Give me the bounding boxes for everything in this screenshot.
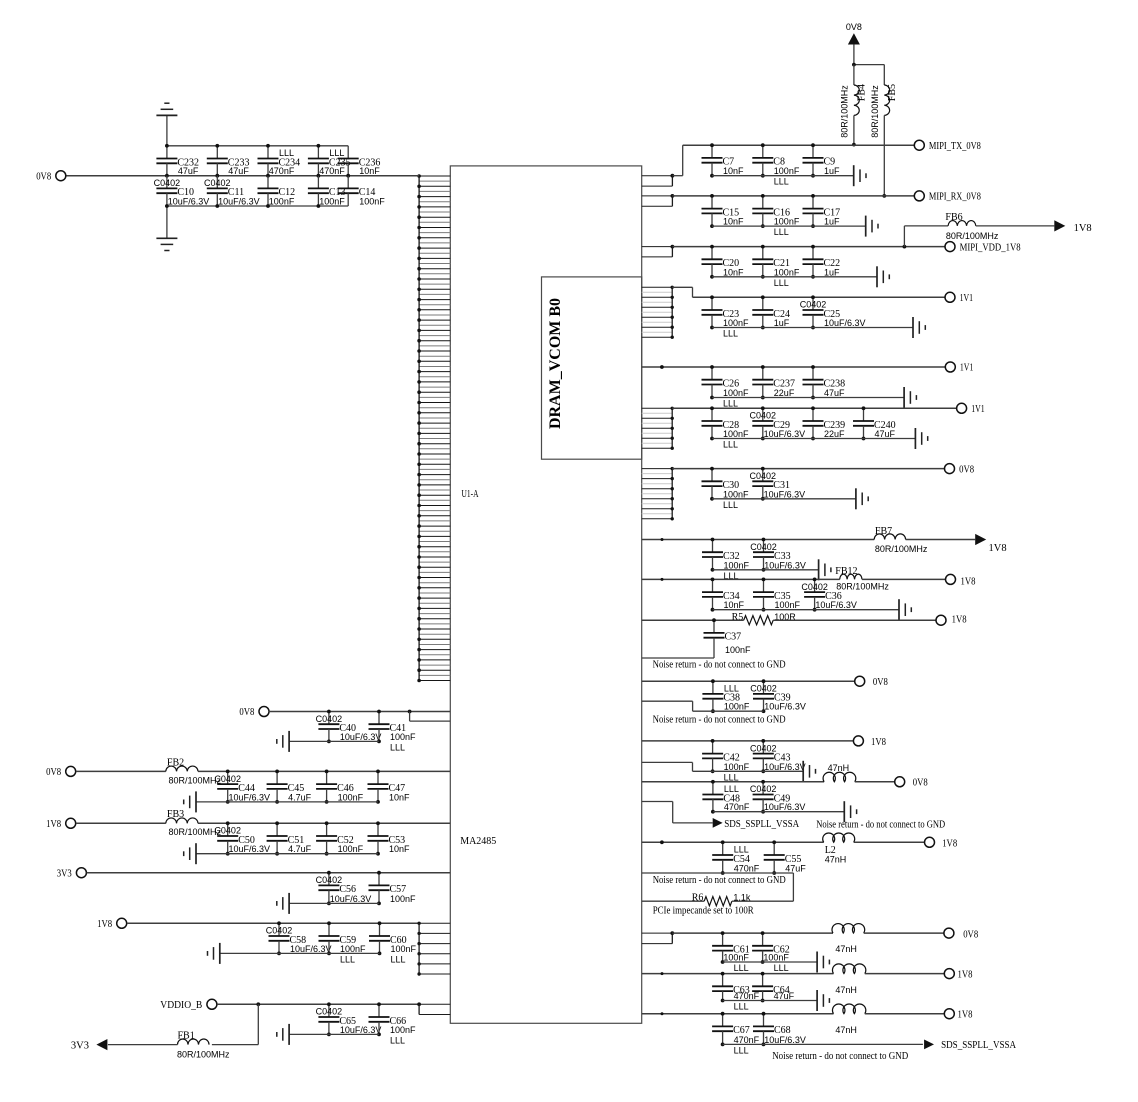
svg-text:MA2485: MA2485 <box>460 836 496 847</box>
svg-text:10uF/6.3V: 10uF/6.3V <box>764 489 806 499</box>
note <box>653 875 786 886</box>
wire <box>906 539 976 541</box>
port MIPI_VDD_1V8 <box>945 242 1021 254</box>
wire noise return <box>642 701 764 711</box>
svg-text:100nF: 100nF <box>763 953 789 963</box>
port 1V8 <box>46 818 76 830</box>
ground <box>208 943 220 964</box>
port 3V3 <box>57 868 87 880</box>
svg-text:SDS_SSPLL_VSSA: SDS_SSPLL_VSSA <box>941 1040 1016 1051</box>
ferrite bead FB1 <box>177 1031 230 1060</box>
svg-text:FB3: FB3 <box>167 809 184 820</box>
svg-text:47nH: 47nH <box>835 944 857 954</box>
svg-text:C0402: C0402 <box>750 542 777 552</box>
svg-text:LLL: LLL <box>734 1045 749 1055</box>
svg-text:MIPI_RX_0V8: MIPI_RX_0V8 <box>929 192 981 203</box>
svg-text:LLL: LLL <box>391 954 406 964</box>
wire 1V8 <box>642 840 824 844</box>
svg-text:10uF/6.3V: 10uF/6.3V <box>764 1035 806 1045</box>
wire cap return rail <box>712 438 915 440</box>
svg-text:LLL: LLL <box>340 954 355 964</box>
capacitor C238 <box>803 365 846 399</box>
svg-text:SDS_SSPLL_VSSA: SDS_SSPLL_VSSA <box>724 819 799 830</box>
svg-text:FB1: FB1 <box>178 1031 195 1042</box>
capacitor C12 <box>258 176 296 208</box>
ferrite bead FB5 <box>870 65 898 198</box>
wire 0V8 <box>672 468 944 470</box>
svg-text:Noise return - do not connect: Noise return - do not connect to GND <box>653 660 786 671</box>
svg-text:0V8: 0V8 <box>46 767 61 778</box>
svg-text:3V3: 3V3 <box>71 1040 89 1051</box>
wire 1V8 <box>127 922 419 924</box>
wire MIPI_RX_0V8 <box>672 195 914 197</box>
wire 3V3 <box>87 872 451 874</box>
junction <box>165 144 169 208</box>
svg-text:C0402: C0402 <box>750 743 777 753</box>
wire to FB1 <box>212 1004 258 1044</box>
svg-text:22uF: 22uF <box>774 388 795 398</box>
capacitor C54 <box>712 840 760 875</box>
svg-text:10nF: 10nF <box>389 792 410 802</box>
wire 1V8 <box>76 822 166 824</box>
svg-text:100nF: 100nF <box>723 953 749 963</box>
wire <box>198 822 450 824</box>
svg-text:0V8: 0V8 <box>913 778 928 789</box>
capacitor C63 <box>712 972 760 1012</box>
svg-text:0V8: 0V8 <box>846 22 862 32</box>
capacitor C64 <box>752 972 795 1003</box>
svg-text:80R/100MHz: 80R/100MHz <box>946 231 999 241</box>
svg-text:0V8: 0V8 <box>239 707 254 718</box>
U1-A right pins <box>642 194 675 206</box>
ferrite bead FB12 <box>835 566 889 591</box>
port 1V8 <box>97 918 127 930</box>
ground <box>854 165 866 186</box>
svg-text:470nF: 470nF <box>319 166 345 176</box>
svg-text:1V8: 1V8 <box>958 1010 973 1021</box>
wire cap return rail <box>723 1000 818 1002</box>
capacitor C59 <box>319 921 367 964</box>
svg-text:4.7uF: 4.7uF <box>288 844 312 854</box>
svg-text:47uF: 47uF <box>178 166 199 176</box>
U1-A right pins <box>642 245 675 257</box>
svg-text:47uF: 47uF <box>228 166 249 176</box>
ground <box>819 559 831 580</box>
svg-text:47uF: 47uF <box>824 388 845 398</box>
wire MIPI_VDD_1V8 <box>672 246 944 248</box>
ground <box>817 952 829 973</box>
svg-text:100nF: 100nF <box>774 166 800 176</box>
svg-text:C37: C37 <box>725 632 742 643</box>
inductor L2 <box>823 833 855 864</box>
svg-text:100nF: 100nF <box>775 600 801 610</box>
wire 1V8 <box>642 740 853 742</box>
capacitor C39 <box>750 679 806 713</box>
wire <box>865 1013 944 1015</box>
capacitor C235 <box>308 144 351 178</box>
svg-text:1V8: 1V8 <box>942 839 957 850</box>
capacitor C17 <box>803 194 841 228</box>
port 1V8 <box>944 1009 972 1021</box>
svg-text:MIPI_VDD_1V8: MIPI_VDD_1V8 <box>960 242 1021 253</box>
svg-text:FB12: FB12 <box>835 566 857 577</box>
svg-text:22uF: 22uF <box>824 429 845 439</box>
capacitor C51 <box>267 821 312 855</box>
ground <box>277 731 289 752</box>
svg-text:LLL: LLL <box>724 772 739 782</box>
svg-text:LLL: LLL <box>390 1035 405 1045</box>
ground bottom stem <box>166 206 168 238</box>
note <box>653 714 786 725</box>
wire cap return rail <box>289 902 379 904</box>
svg-text:47nH: 47nH <box>835 1025 857 1035</box>
capacitor C30 <box>702 467 750 510</box>
svg-text:C0402: C0402 <box>750 411 777 421</box>
capacitor C237 <box>752 365 795 399</box>
wire 0V8 rail top <box>167 145 348 147</box>
svg-text:470nF: 470nF <box>734 991 760 1001</box>
power 1V8 arrow <box>1054 220 1091 234</box>
wire cap return rail <box>713 609 900 611</box>
capacitor C7 <box>702 143 745 177</box>
capacitor C9 <box>803 143 841 177</box>
wire cap return rail <box>713 811 844 813</box>
svg-text:Noise return - do not connect: Noise return - do not connect to GND <box>816 820 945 831</box>
capacitor C28 <box>702 406 750 449</box>
svg-text:LLL: LLL <box>723 500 738 510</box>
U1-A right pins <box>642 407 674 450</box>
capacitor C232 <box>156 146 199 178</box>
capacitor C41 <box>369 710 417 753</box>
svg-text:10uF/6.3V: 10uF/6.3V <box>330 894 372 904</box>
svg-text:R5: R5 <box>732 612 744 623</box>
wire cap return rail <box>712 276 877 278</box>
svg-text:10uF/6.3V: 10uF/6.3V <box>764 429 806 439</box>
resistor R5 <box>732 612 797 625</box>
svg-text:FB7: FB7 <box>875 526 892 537</box>
svg-text:10uF/6.3V: 10uF/6.3V <box>229 844 271 854</box>
svg-text:100nF: 100nF <box>340 944 366 954</box>
svg-text:100nF: 100nF <box>723 429 749 439</box>
svg-text:1V8: 1V8 <box>1074 223 1092 234</box>
ground <box>877 266 889 287</box>
svg-text:0V8: 0V8 <box>36 171 51 182</box>
capacitor C38 <box>702 679 750 713</box>
svg-text:DRAM_VCOM B0: DRAM_VCOM B0 <box>547 298 564 429</box>
ground <box>184 843 196 864</box>
capacitor C23 <box>702 295 750 338</box>
wire cap return rail <box>220 952 380 954</box>
capacitor C43 <box>750 739 806 773</box>
svg-text:1V8: 1V8 <box>958 969 973 980</box>
wire 1V1 <box>672 407 956 409</box>
wire 1V1 <box>642 365 945 369</box>
ground <box>277 893 289 914</box>
svg-text:LLL: LLL <box>279 148 294 158</box>
wire cap return rail <box>196 801 378 803</box>
capacitor C47 <box>368 770 411 804</box>
capacitor C236 <box>338 146 381 178</box>
svg-text:47nH: 47nH <box>825 854 847 864</box>
svg-text:470nF: 470nF <box>724 802 750 812</box>
svg-text:100nF: 100nF <box>725 645 751 655</box>
svg-text:LLL: LLL <box>734 1002 749 1012</box>
svg-text:1V8: 1V8 <box>97 919 112 930</box>
svg-text:10uF/6.3V: 10uF/6.3V <box>340 732 382 742</box>
wire to 1V8 arrow <box>976 225 1055 227</box>
wire cap return rail <box>289 740 379 742</box>
ground <box>184 791 196 812</box>
svg-text:100nF: 100nF <box>338 792 364 802</box>
svg-text:C0402: C0402 <box>266 926 293 936</box>
wire <box>852 44 884 66</box>
port 1V8 <box>853 736 886 748</box>
port MIPI_TX_0V8 <box>914 140 981 152</box>
U1-A left pins (VDDIO bank) <box>417 1002 450 1014</box>
port 0V8 <box>895 777 928 789</box>
svg-text:0V8: 0V8 <box>963 930 978 941</box>
IC U1-A inner block DRAM_VCOM B0 <box>542 277 642 459</box>
capacitor C40 <box>316 710 382 744</box>
capacitor C58 <box>266 921 332 955</box>
wire <box>642 619 744 621</box>
svg-text:1V1: 1V1 <box>960 363 974 374</box>
capacitor C53 <box>368 821 411 855</box>
svg-text:47nH: 47nH <box>835 985 857 995</box>
wire cap return rail <box>196 853 378 855</box>
svg-text:LLL: LLL <box>329 148 344 158</box>
svg-text:100nF: 100nF <box>319 197 345 207</box>
svg-text:10nF: 10nF <box>723 217 744 227</box>
svg-text:LLL: LLL <box>723 440 738 450</box>
svg-text:100nF: 100nF <box>723 489 749 499</box>
svg-text:C0402: C0402 <box>214 774 241 784</box>
ferrite bead FB3 <box>166 809 222 837</box>
wire 1V1 <box>672 287 945 297</box>
svg-text:C0402: C0402 <box>316 1007 343 1017</box>
capacitor C52 <box>316 821 364 855</box>
capacitor C8 <box>752 143 800 186</box>
ground <box>817 990 829 1011</box>
svg-text:10uF/6.3V: 10uF/6.3V <box>168 197 210 207</box>
svg-text:1V8: 1V8 <box>989 543 1007 554</box>
svg-text:100nF: 100nF <box>774 267 800 277</box>
capacitor C42 <box>702 739 750 782</box>
svg-text:10nF: 10nF <box>723 267 744 277</box>
wire 0V8 <box>269 710 451 714</box>
wire cap return rail <box>712 175 854 177</box>
capacitor C60 <box>369 921 417 964</box>
wire <box>642 538 875 541</box>
capacitor C61 <box>712 931 750 973</box>
port 1V1 <box>957 403 985 415</box>
port VDDIO_B <box>160 999 217 1011</box>
resistor R6 <box>692 892 751 905</box>
svg-text:C0402: C0402 <box>800 300 827 310</box>
port 1V8 <box>946 574 976 587</box>
svg-text:80R/100MHz: 80R/100MHz <box>840 85 850 138</box>
svg-text:1V8: 1V8 <box>46 819 61 830</box>
power 0V8 <box>846 22 862 44</box>
note <box>816 820 945 831</box>
capacitor C37 <box>704 618 742 658</box>
wire 0V8 net from port <box>66 175 419 177</box>
wire cap return rail <box>712 225 866 227</box>
svg-text:100nF: 100nF <box>338 844 364 854</box>
port 1V8 <box>944 969 972 981</box>
svg-text:LLL: LLL <box>774 177 789 187</box>
capacitor C48 <box>702 780 750 814</box>
capacitor C14 <box>338 176 386 207</box>
svg-text:1V8: 1V8 <box>961 576 976 587</box>
capacitor C62 <box>752 931 790 973</box>
wire noise return rail <box>723 1043 923 1045</box>
svg-text:0V8: 0V8 <box>873 677 888 688</box>
svg-text:LLL: LLL <box>774 278 789 288</box>
svg-text:C0402: C0402 <box>316 714 343 724</box>
wire pin2 <box>410 712 451 722</box>
wire MIPI_TX_0V8 <box>672 145 914 176</box>
capacitor C15 <box>702 194 745 228</box>
capacitor C45 <box>267 770 312 804</box>
wire cap return rail <box>712 498 856 500</box>
port 0V8 <box>945 464 975 476</box>
svg-text:1uF: 1uF <box>824 166 840 176</box>
U1-A right pins <box>642 467 674 521</box>
svg-text:C0402: C0402 <box>750 684 777 694</box>
svg-text:FB5: FB5 <box>887 84 898 101</box>
svg-text:LLL: LLL <box>774 227 789 237</box>
ferrite bead FB6 <box>945 212 999 241</box>
svg-text:10nF: 10nF <box>389 844 410 854</box>
svg-text:PCIe impecande set to 100R: PCIe impecande set to 100R <box>653 906 754 917</box>
port 0V8 <box>36 171 66 183</box>
port 1V8 <box>936 615 967 626</box>
capacitor C49 <box>750 780 806 814</box>
wire noise return rail <box>642 873 794 901</box>
IC U1-A outer body <box>450 166 641 1023</box>
wire <box>855 781 895 783</box>
svg-text:10uF/6.3V: 10uF/6.3V <box>764 762 806 772</box>
port SDS_SSPLL_VSSA <box>713 818 800 830</box>
port 0V8 <box>239 707 269 719</box>
svg-text:U1-A: U1-A <box>462 489 480 500</box>
power 1V8 arrow <box>975 534 1006 554</box>
capacitor C26 <box>702 365 750 408</box>
svg-text:100nF: 100nF <box>723 388 749 398</box>
svg-text:LLL: LLL <box>724 784 739 794</box>
svg-text:C0402: C0402 <box>750 784 777 794</box>
svg-text:1V8: 1V8 <box>952 615 967 626</box>
svg-text:FB2: FB2 <box>167 757 184 768</box>
wire to FB6 <box>903 226 949 249</box>
svg-text:C0402: C0402 <box>750 471 777 481</box>
inductor 47nH <box>832 1004 865 1035</box>
capacitor C32 <box>702 538 750 581</box>
ground <box>803 761 815 782</box>
svg-text:LLL: LLL <box>774 963 789 973</box>
svg-text:47uF: 47uF <box>785 864 806 874</box>
ground <box>844 801 856 822</box>
svg-text:470nF: 470nF <box>734 1035 760 1045</box>
wire cap return rail <box>713 569 819 571</box>
ferrite bead FB4 <box>840 65 868 147</box>
capacitor C25 <box>800 295 866 329</box>
svg-text:100nF: 100nF <box>359 197 385 207</box>
U1-A right pins <box>642 931 674 943</box>
capacitor C65 <box>316 1002 382 1036</box>
svg-text:1V1: 1V1 <box>971 404 985 415</box>
svg-text:100nF: 100nF <box>724 702 750 712</box>
svg-text:FB6: FB6 <box>945 212 962 223</box>
wire <box>865 973 944 975</box>
svg-text:10nF: 10nF <box>723 166 744 176</box>
ground <box>866 216 878 237</box>
capacitor C13 <box>308 176 346 208</box>
wire cap return rail <box>712 327 913 329</box>
wire to SDS_SSPLL_VSSA <box>642 802 713 823</box>
capacitor C34 <box>702 578 745 612</box>
capacitor C11 <box>204 176 260 208</box>
wire <box>864 932 944 934</box>
svg-text:470nF: 470nF <box>734 864 760 874</box>
svg-text:100nF: 100nF <box>724 762 750 772</box>
svg-text:10uF/6.3V: 10uF/6.3V <box>340 1025 382 1035</box>
capacitor C33 <box>750 538 806 572</box>
svg-text:Noise return - do not connect: Noise return - do not connect to GND <box>653 714 786 725</box>
port 0V8 <box>944 928 978 940</box>
note <box>653 906 754 917</box>
svg-text:Noise return - do not connect: Noise return - do not connect to GND <box>653 875 786 886</box>
wire <box>642 578 840 581</box>
ground <box>904 387 916 408</box>
port 0V8 <box>855 676 888 688</box>
svg-text:LLL: LLL <box>734 845 749 855</box>
svg-text:10uF/6.3V: 10uF/6.3V <box>229 792 271 802</box>
svg-text:1V1: 1V1 <box>960 293 974 304</box>
wire <box>854 841 925 843</box>
ground <box>915 428 927 449</box>
port 1V1 <box>945 362 973 374</box>
capacitor C67 <box>712 1012 760 1056</box>
capacitor C68 <box>753 1012 806 1047</box>
svg-text:10uF/6.3V: 10uF/6.3V <box>764 802 806 812</box>
svg-text:100nF: 100nF <box>269 197 295 207</box>
wire 0V8 <box>642 680 855 682</box>
wire <box>773 619 936 621</box>
wire cap return rail <box>712 397 904 399</box>
svg-text:10uF/6.3V: 10uF/6.3V <box>815 600 857 610</box>
svg-text:80R/100MHz: 80R/100MHz <box>870 85 880 138</box>
svg-text:47nH: 47nH <box>828 763 850 773</box>
capacitor C29 <box>750 406 806 440</box>
svg-text:470nF: 470nF <box>269 166 295 176</box>
port 1V8 <box>925 837 958 849</box>
svg-text:C0402: C0402 <box>154 178 181 188</box>
capacitor C10 <box>154 176 210 207</box>
capacitor C31 <box>750 467 806 501</box>
svg-text:10nF: 10nF <box>724 600 745 610</box>
svg-text:MIPI_TX_0V8: MIPI_TX_0V8 <box>929 141 981 152</box>
capacitor C20 <box>702 245 745 279</box>
svg-text:LLL: LLL <box>723 399 738 409</box>
svg-text:10uF/6.3V: 10uF/6.3V <box>824 318 866 328</box>
svg-text:FB4: FB4 <box>857 84 868 101</box>
capacitor C233 <box>207 144 250 178</box>
wire 0V8 <box>672 932 833 934</box>
wire bottom rail <box>167 205 348 207</box>
note <box>772 1051 908 1062</box>
